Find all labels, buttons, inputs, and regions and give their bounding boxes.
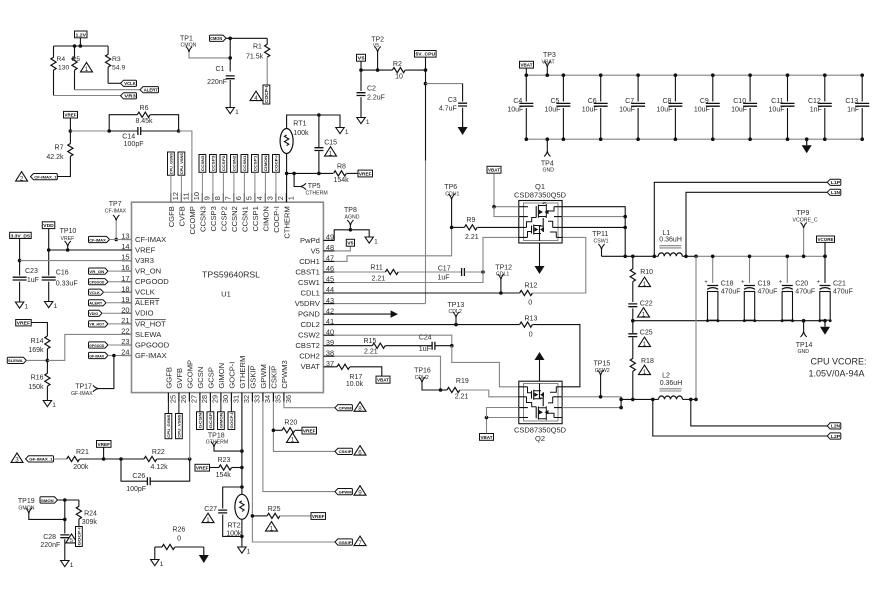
svg-text:1: 1 <box>329 150 333 157</box>
svg-text:10uF: 10uF <box>582 107 598 114</box>
pin 31 (GOCP-I) <box>230 393 232 402</box>
svg-text:41: 41 <box>326 317 334 326</box>
wire Q1 drain stubs to SW <box>562 207 625 257</box>
svg-text:35: 35 <box>274 395 283 403</box>
net label VCORE <box>817 236 835 242</box>
svg-text:10uF: 10uF <box>656 107 672 114</box>
node C15 bottom <box>317 172 321 176</box>
svg-text:0: 0 <box>177 536 181 543</box>
svg-text:R24: R24 <box>84 511 97 518</box>
svg-text:R15: R15 <box>364 338 377 345</box>
pin 12 (CGFB) <box>170 193 172 202</box>
pin 20 (VDIO) <box>122 312 132 314</box>
svg-text:C4: C4 <box>513 98 522 105</box>
wire L2P sense <box>653 399 827 436</box>
svg-text:CDL1: CDL1 <box>300 288 319 297</box>
net label ALERT (left) <box>89 300 107 306</box>
wire R13 to Q2 gate <box>533 325 580 387</box>
svg-text:VDD: VDD <box>43 223 54 228</box>
svg-text:CCSP1: CCSP1 <box>251 206 260 231</box>
svg-text:10uF: 10uF <box>619 107 635 114</box>
wire VCORE stem <box>824 242 826 256</box>
ground at R16 <box>43 401 51 407</box>
ground at RT2 <box>238 547 246 553</box>
svg-text:R6: R6 <box>140 105 149 112</box>
svg-text:R10: R10 <box>640 269 653 276</box>
net label GSKIP <box>335 539 353 545</box>
svg-text:R21: R21 <box>76 449 89 456</box>
node VREF pin14 <box>47 248 51 252</box>
node TP18 <box>240 449 244 453</box>
warning triangle 1 at R5 <box>81 62 93 72</box>
svg-text:7: 7 <box>224 196 233 200</box>
net label 3.3V_DS <box>10 232 32 238</box>
svg-text:VCLK: VCLK <box>89 290 100 295</box>
svg-text:C20: C20 <box>795 281 808 288</box>
wire SLEWA to pin 22 <box>47 334 131 360</box>
svg-text:GPGOOD: GPGOOD <box>89 343 104 348</box>
svg-text:R16: R16 <box>31 375 44 382</box>
svg-text:COCP-I: COCP-I <box>272 206 281 233</box>
net label VDD <box>42 222 55 229</box>
svg-text:GMON: GMON <box>41 498 54 503</box>
wire CPGOOD tag to IC <box>108 281 132 283</box>
node VREF/R7 <box>69 129 73 133</box>
svg-text:CGFB: CGFB <box>167 206 176 227</box>
node TP7/pin13 <box>114 238 118 242</box>
wire GPGOOD tag to IC <box>108 344 132 346</box>
wire pin 43 V5DRV <box>334 303 425 305</box>
svg-text:R4: R4 <box>57 56 66 63</box>
wire pin 33 GSKIP down <box>252 402 335 542</box>
ground at C1 <box>226 108 234 114</box>
thermistor RT2 <box>235 494 249 519</box>
svg-text:R7: R7 <box>55 145 64 152</box>
svg-text:V5: V5 <box>347 241 354 246</box>
svg-text:26: 26 <box>179 395 188 403</box>
svg-text:8.45k: 8.45k <box>135 118 153 125</box>
warning triangle 8 at CPWM <box>354 402 366 412</box>
svg-text:CDH1: CDH1 <box>299 257 320 266</box>
node C27 branch <box>240 485 244 489</box>
svg-text:R1: R1 <box>253 44 262 51</box>
wire SLEWA to node <box>26 359 47 361</box>
pin 7 (CCSP2) <box>222 193 224 202</box>
wire R11 to C17 <box>398 271 461 273</box>
wire VBAT to Q2 <box>487 418 519 434</box>
svg-text:CPU_GSNS: CPU_GSNS <box>169 153 174 175</box>
svg-text:CCSP1: CCSP1 <box>253 155 258 172</box>
wire VREF node to R6/C14 <box>70 130 109 132</box>
net label VR3 <box>121 93 137 99</box>
capacitor C19 (polarized 470uF) <box>749 256 751 283</box>
svg-text:C5: C5 <box>550 98 559 105</box>
wire R21 to node <box>80 458 121 460</box>
svg-text:10uF: 10uF <box>731 107 747 114</box>
net label CPU_VSNS (pin 11) <box>178 152 185 175</box>
svg-text:309k: 309k <box>82 519 98 526</box>
svg-text:VR_ON: VR_ON <box>135 267 161 276</box>
wire TP11 stem <box>601 250 603 257</box>
svg-text:L2: L2 <box>662 373 670 380</box>
svg-text:1: 1 <box>287 196 296 200</box>
svg-text:34: 34 <box>263 395 272 403</box>
wire GCOMP up to pin 27 <box>189 402 191 459</box>
wire to pin 10 CCOMP <box>179 131 192 202</box>
svg-text:12: 12 <box>171 192 180 200</box>
svg-text:GTHERM: GTHERM <box>238 356 247 389</box>
pin 29 (GCSP) <box>209 393 211 402</box>
wire VDIO tag to IC <box>102 312 132 314</box>
svg-text:8: 8 <box>358 406 362 413</box>
wire 5V_CPU stem <box>425 57 427 70</box>
wire C1 to ground <box>229 80 231 108</box>
net label CCSN3 (top pin) <box>199 155 206 173</box>
wire pin 39 CBST2 to R15 <box>334 345 372 347</box>
wire SW1 node <box>602 255 655 257</box>
svg-text:R25: R25 <box>268 506 281 513</box>
svg-text:ALERT: ALERT <box>89 301 103 306</box>
capacitor C2 <box>360 70 362 91</box>
capacitor C11 <box>787 75 789 101</box>
test point TP5 <box>294 173 300 186</box>
net label 5V_CPU <box>415 51 437 58</box>
svg-text:VREF: VREF <box>17 321 31 326</box>
svg-text:2.21: 2.21 <box>465 234 479 241</box>
svg-text:CDL2: CDL2 <box>300 320 319 329</box>
node VBAT Q1 <box>492 205 496 209</box>
svg-text:TP15: TP15 <box>594 361 611 368</box>
svg-text:154k: 154k <box>216 472 232 479</box>
pin 45 (CSW1) <box>323 282 334 284</box>
pin 15 (V3R3) <box>122 260 132 262</box>
svg-text:2.21: 2.21 <box>455 394 469 401</box>
svg-text:TP8: TP8 <box>344 207 357 214</box>
svg-text:169k: 169k <box>28 347 44 354</box>
power flag VBAT (R17) <box>376 376 390 383</box>
pin 33 (GSKIP) <box>251 393 253 402</box>
wire VCLK tag to IC <box>104 291 132 293</box>
svg-text:7: 7 <box>358 540 362 547</box>
svg-text:VBAT: VBAT <box>481 435 493 440</box>
wire ALERT tag to IC <box>106 302 132 304</box>
pin 4 (CCSP1) <box>254 193 256 202</box>
resistor R16 <box>46 360 48 373</box>
svg-text:0: 0 <box>528 300 532 307</box>
wire TP3 stem <box>546 67 548 75</box>
power flag V5 (small box) <box>357 54 366 61</box>
wire R15 to C24 <box>385 345 432 347</box>
resistor R15 <box>372 343 385 348</box>
svg-text:C23: C23 <box>25 268 38 275</box>
svg-text:ALERT: ALERT <box>135 298 160 307</box>
power ground at C3 <box>462 121 464 127</box>
wire pin 34 GPWM down <box>263 402 335 492</box>
pin 2 (COCP-I) <box>275 193 277 202</box>
resistor R14 <box>45 336 50 349</box>
svg-text:GGFB: GGFB <box>164 367 173 389</box>
svg-text:C16: C16 <box>56 270 69 277</box>
net label GF-IMAX (left) <box>89 352 109 358</box>
svg-text:VDIO: VDIO <box>135 309 154 318</box>
wire pin 32 GTHERM down <box>241 402 243 495</box>
test point TP4 <box>546 139 548 151</box>
node GCOMP <box>188 457 192 461</box>
capacitor C25 <box>632 321 634 333</box>
capacitor C6 <box>600 75 602 101</box>
svg-text:CF-IMAX: CF-IMAX <box>135 235 166 244</box>
resistor R19 <box>441 389 448 391</box>
svg-text:GPWM: GPWM <box>259 364 268 388</box>
wire 5V_CPU down <box>425 70 427 84</box>
svg-text:11: 11 <box>182 193 191 201</box>
svg-text:VREF: VREF <box>303 429 316 434</box>
node 1.2V rail <box>73 44 77 48</box>
wire CF-IMAX tag to pin 13 <box>110 239 132 241</box>
wire C17 to boot node <box>465 271 484 273</box>
svg-text:54.9: 54.9 <box>112 64 125 71</box>
svg-text:TP16: TP16 <box>414 368 431 375</box>
svg-text:GIMON: GIMON <box>219 413 224 429</box>
svg-text:1: 1 <box>291 437 295 444</box>
wire R4 to VR3 tag <box>54 95 121 97</box>
wire TP15 stem <box>600 376 602 397</box>
net label VBAT (Q2) <box>480 434 494 441</box>
node R10 top <box>631 254 635 258</box>
svg-text:GCSP: GCSP <box>208 412 213 428</box>
pin 17 (CPGOOD) <box>122 281 132 283</box>
resistor R13 <box>520 322 533 327</box>
net label L1N <box>827 189 841 195</box>
node R6/C14 left <box>107 129 111 133</box>
pin 18 (VCLK) <box>122 291 132 293</box>
svg-text:VREF: VREF <box>196 466 209 471</box>
wire pin 46 CBST1 to R11 <box>334 271 385 273</box>
svg-text:2.21: 2.21 <box>372 276 386 283</box>
net label CCSP2 (top pin) <box>220 155 227 173</box>
svg-text:CCSP2: CCSP2 <box>219 206 228 231</box>
svg-text:R20: R20 <box>284 420 297 427</box>
svg-text:470uF: 470uF <box>833 289 853 296</box>
svg-text:2: 2 <box>276 196 285 200</box>
resistor R4 <box>53 46 55 58</box>
net label GOCP-I (bottom pin) <box>228 412 235 430</box>
svg-text:GSKIP: GSKIP <box>248 365 257 388</box>
pin 44 (CDL1) <box>323 292 334 294</box>
svg-text:1uF: 1uF <box>27 277 39 284</box>
svg-text:CCSP3: CCSP3 <box>209 206 218 231</box>
node C15 top <box>317 113 321 117</box>
svg-text:TPS59640RSL: TPS59640RSL <box>202 270 260 280</box>
pin 23 (GPGOOD) <box>122 344 132 346</box>
svg-text:R14: R14 <box>31 338 44 345</box>
svg-text:CPU_VSNS: CPU_VSNS <box>179 153 184 175</box>
svg-text:CPGOOD: CPGOOD <box>89 280 104 285</box>
warning triangle 1 at R25 <box>266 522 278 532</box>
pin 10 (CCOMP) <box>191 193 193 202</box>
svg-text:C25: C25 <box>640 330 653 337</box>
wire TP7 stem <box>115 221 117 240</box>
wire TP16 stem <box>422 383 441 391</box>
svg-text:GND: GND <box>798 349 810 355</box>
pin 43 (V5DRV) <box>323 303 334 305</box>
resistor R25 <box>252 515 267 517</box>
svg-text:CDH2: CDH2 <box>299 352 320 361</box>
wire TP1 stem <box>189 52 230 58</box>
svg-text:R19: R19 <box>456 378 469 385</box>
ground at C2 <box>357 118 365 124</box>
wire C27 branch <box>223 487 242 509</box>
svg-text:C2: C2 <box>367 86 376 93</box>
IC U1 TPS59640RSL body <box>132 202 324 392</box>
node C3 branch <box>424 82 428 86</box>
net label VREF (R25) <box>311 513 326 520</box>
svg-text:GPWM: GPWM <box>339 489 353 494</box>
net label VR_HOT (left) <box>89 321 109 327</box>
svg-text:4.7uF: 4.7uF <box>439 106 457 113</box>
wire V5 box down <box>360 61 362 70</box>
svg-text:1: 1 <box>643 369 647 376</box>
net label VBAT (Q1) <box>487 166 501 173</box>
wire R2 to 5V_CPU node <box>405 69 425 71</box>
svg-text:CSW1: CSW1 <box>298 278 320 287</box>
svg-text:1: 1 <box>235 109 239 116</box>
pin 27 (GCOMP) <box>188 393 190 402</box>
wire VCORE bus <box>696 255 825 257</box>
resistor R23 <box>210 467 219 469</box>
wire CMON to R1 <box>226 37 267 39</box>
wire RT1 bottom to CTHERM node <box>286 154 288 174</box>
svg-text:C21: C21 <box>833 281 846 288</box>
svg-text:1.2V: 1.2V <box>76 32 88 37</box>
pin 30 (GIMON) <box>220 393 222 402</box>
capacitor C26 <box>121 459 147 481</box>
wire VBAT stem <box>525 68 527 75</box>
svg-text:44: 44 <box>326 285 334 294</box>
wire boot node down to CSW1 pin 45 <box>334 272 483 283</box>
svg-text:+: + <box>817 280 821 286</box>
wire GF-IMAX tag to IC <box>108 355 132 357</box>
net label VREF (R20) <box>302 427 317 434</box>
svg-text:4: 4 <box>254 95 258 102</box>
svg-text:9: 9 <box>358 490 362 497</box>
svg-text:130: 130 <box>58 64 69 71</box>
svg-text:C14: C14 <box>122 134 135 141</box>
net label GF-IMAX_1 <box>26 456 54 462</box>
svg-text:VR_ON: VR_ON <box>89 269 104 274</box>
wire pin 47 CDH1 to R9 node <box>334 227 451 261</box>
node V5 <box>359 68 363 72</box>
svg-text:C9: C9 <box>700 98 709 105</box>
svg-text:C12: C12 <box>808 98 821 105</box>
capacitor C21 (polarized 470uF) <box>824 256 826 283</box>
svg-text:10uF: 10uF <box>507 107 523 114</box>
svg-text:CPU_VSNS: CPU_VSNS <box>177 414 182 438</box>
svg-text:CCOMP: CCOMP <box>188 206 197 234</box>
svg-text:SLEWA: SLEWA <box>135 330 162 339</box>
resistor R21 <box>67 456 80 461</box>
warning triangle 4 at COCP-I <box>250 91 262 101</box>
svg-text:VREF: VREF <box>359 171 372 176</box>
resistor R17 <box>337 364 350 369</box>
svg-text:2.21: 2.21 <box>364 349 378 356</box>
svg-text:1: 1 <box>85 66 89 73</box>
svg-text:1: 1 <box>247 548 251 555</box>
capacitor C9 <box>712 75 714 101</box>
power flag V5 (pin 48) <box>346 239 354 246</box>
svg-text:GPGOOD: GPGOOD <box>135 340 170 349</box>
wire pin1 CTHERM down to IC <box>286 173 288 202</box>
svg-text:C11: C11 <box>771 98 783 105</box>
svg-text:1uF: 1uF <box>437 275 449 282</box>
node R21/VREF <box>102 457 106 461</box>
svg-text:R9: R9 <box>466 217 475 224</box>
ground at C16 <box>45 302 53 308</box>
pin 34 (GPWM) <box>262 393 264 402</box>
resistor R26 <box>155 546 162 548</box>
svg-text:CCSP3: CCSP3 <box>211 155 216 172</box>
wire VBAT to Q1 pin2 <box>494 207 519 217</box>
wire VBAT to Q1 <box>494 173 519 207</box>
thermistor RT1 <box>280 129 293 154</box>
svg-text:27: 27 <box>190 395 199 403</box>
svg-text:3: 3 <box>15 457 19 464</box>
svg-text:GSKIP: GSKIP <box>339 540 352 545</box>
power ground at cap bank <box>806 139 808 145</box>
wire pin 40 CSW2 <box>334 335 451 346</box>
svg-text:CCSP2: CCSP2 <box>221 155 226 172</box>
wire pin 37 VBAT to R17 <box>334 366 337 368</box>
net label GIMON (bottom pin) <box>218 412 225 430</box>
wire R5 to ALERT tag <box>75 89 141 91</box>
svg-text:10: 10 <box>395 74 403 81</box>
svg-text:8: 8 <box>213 196 222 200</box>
svg-text:CBST2: CBST2 <box>295 341 319 350</box>
svg-text:R3: R3 <box>112 56 121 63</box>
svg-text:37: 37 <box>326 359 334 368</box>
svg-text:1nF: 1nF <box>847 107 859 114</box>
svg-text:COCP-I: COCP-I <box>274 156 279 172</box>
wire 3.3V_DS down <box>19 239 21 261</box>
svg-text:C18: C18 <box>721 281 734 288</box>
svg-text:GCSP: GCSP <box>206 367 215 389</box>
warning triangle 2 at CF-IMAX_1 <box>16 172 28 182</box>
svg-text:CCSN3: CCSN3 <box>198 206 207 232</box>
svg-text:CCSN2: CCSN2 <box>230 206 239 232</box>
node L2 right sense <box>689 398 693 402</box>
svg-text:470uF: 470uF <box>721 289 741 296</box>
warning triangle 1 at C25 <box>639 337 651 347</box>
svg-text:+: + <box>779 280 783 286</box>
svg-text:CF-IMAX: CF-IMAX <box>105 208 127 214</box>
svg-text:40: 40 <box>326 327 334 336</box>
svg-text:GVFB: GVFB <box>175 368 184 389</box>
wire VDD down <box>48 229 50 250</box>
svg-text:1uF: 1uF <box>419 346 431 353</box>
svg-text:47: 47 <box>326 254 334 263</box>
pin 11 (CVFB) <box>180 193 182 202</box>
node V3R3 pin15 <box>18 259 22 263</box>
pin 49 (PwPd) <box>323 239 334 241</box>
svg-text:C15: C15 <box>324 140 337 147</box>
node mid chain <box>631 319 635 323</box>
svg-text:CPWM3: CPWM3 <box>280 360 289 388</box>
wire TP6 stem <box>451 200 453 228</box>
svg-text:VR3: VR3 <box>124 94 136 99</box>
svg-text:CF-IMAX_1: CF-IMAX_1 <box>34 174 57 179</box>
pin 40 (CSW2) <box>323 334 334 336</box>
svg-text:VCLK: VCLK <box>135 288 155 297</box>
